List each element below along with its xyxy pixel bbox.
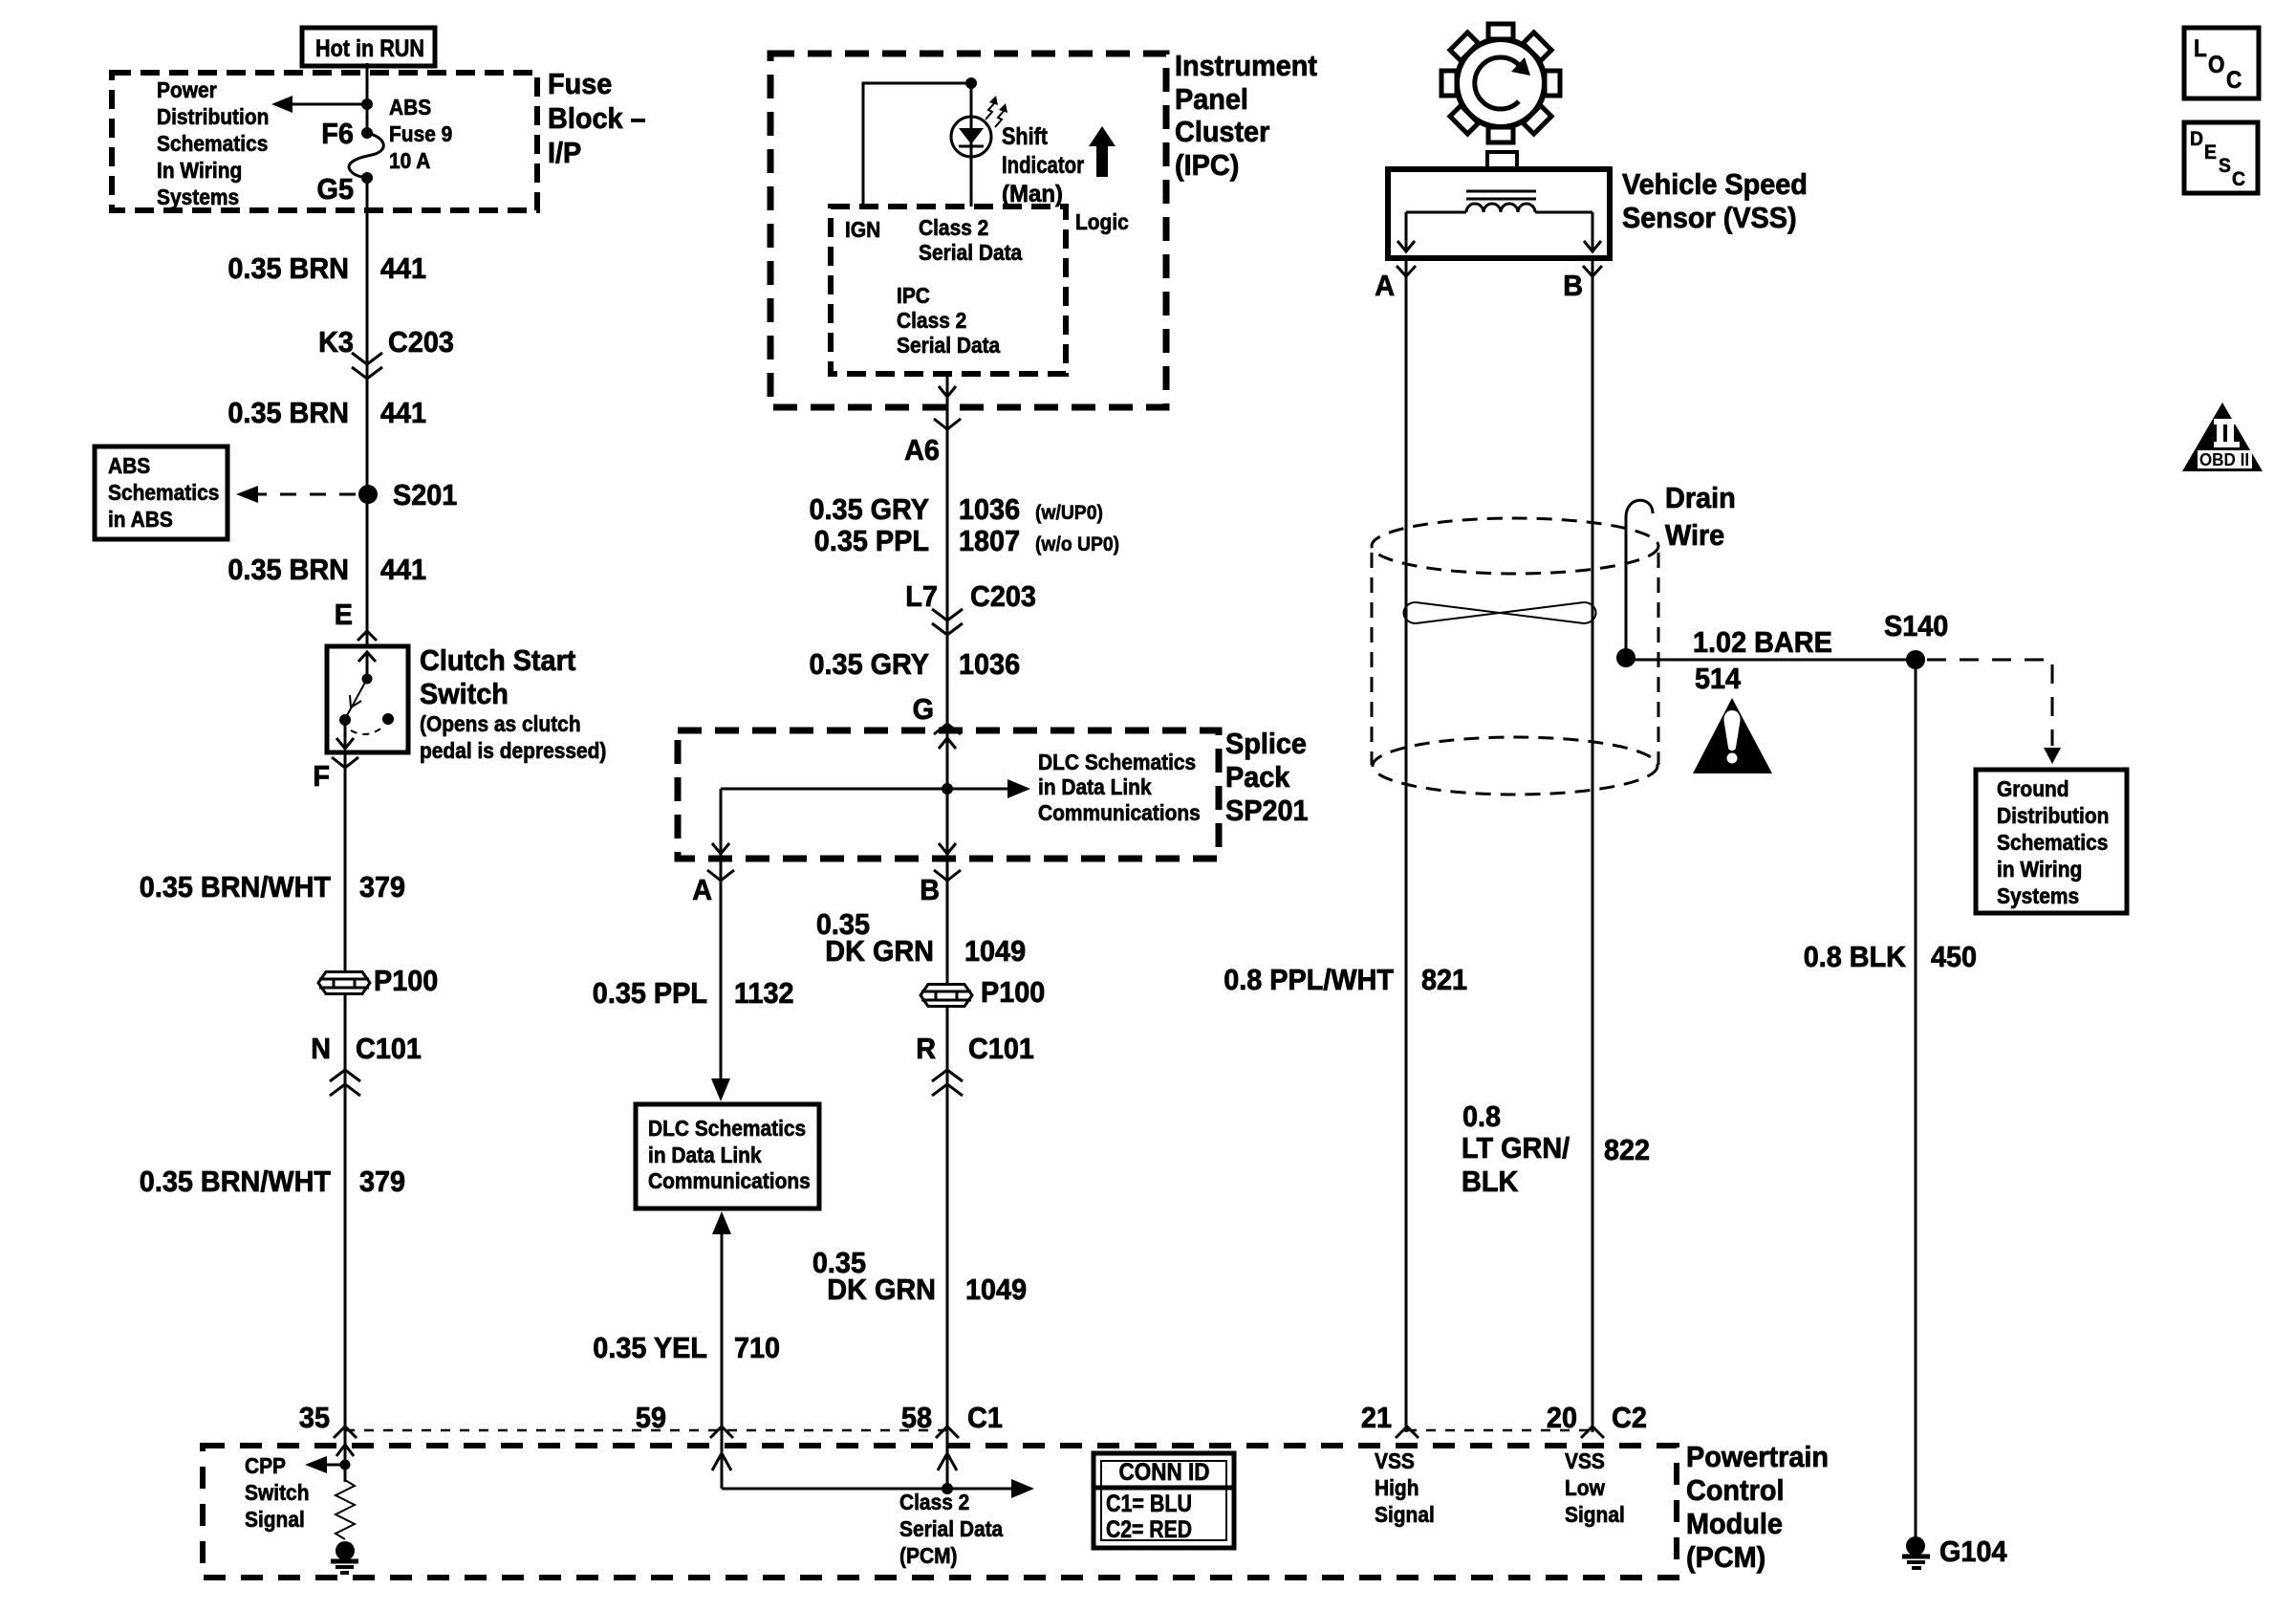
node: LED feed junction bbox=[965, 77, 977, 89]
label Class 2 Serial Data bbox=[919, 215, 1022, 265]
OBD II icon bbox=[2182, 403, 2263, 471]
svg-text:Shift: Shift bbox=[1002, 123, 1049, 150]
svg-text:B: B bbox=[920, 873, 940, 906]
label CPP Switch Signal bbox=[245, 1453, 310, 1532]
svg-text:1049: 1049 bbox=[964, 934, 1026, 968]
svg-text:379: 379 bbox=[359, 1165, 405, 1198]
label Instrument Panel Cluster (IPC) bbox=[1175, 49, 1317, 182]
svg-text:1036: 1036 bbox=[959, 492, 1020, 526]
svg-text:Serial Data: Serial Data bbox=[919, 240, 1022, 265]
wire: battery feed from Hot in RUN to fuse bbox=[366, 63, 369, 133]
svg-text:in Wiring: in Wiring bbox=[1997, 857, 2082, 882]
svg-text:G5: G5 bbox=[317, 172, 355, 206]
Hot in RUN box bbox=[302, 28, 435, 66]
label IPC Class 2 Serial Data bbox=[897, 283, 1000, 358]
svg-text:OBD II: OBD II bbox=[2199, 450, 2249, 469]
svg-text:DK GRN: DK GRN bbox=[825, 934, 934, 968]
svg-text:1049: 1049 bbox=[965, 1273, 1027, 1306]
svg-text:0.8: 0.8 bbox=[1462, 1099, 1501, 1133]
DLC Schematics box bbox=[636, 1104, 819, 1208]
label 0.35 YEL 710 bbox=[593, 1331, 780, 1364]
ground (PCM internal) bbox=[331, 1541, 358, 1573]
svg-text:Panel: Panel bbox=[1175, 82, 1248, 116]
label Drain Wire bbox=[1665, 481, 1736, 552]
svg-text:Clutch Start: Clutch Start bbox=[420, 643, 575, 677]
label 0.8 LT GRN/ BLK 822 bbox=[1462, 1099, 1650, 1198]
svg-text:(w/o UP0): (w/o UP0) bbox=[1035, 533, 1119, 555]
svg-text:822: 822 bbox=[1604, 1133, 1650, 1166]
terminal B of splice bbox=[920, 870, 961, 906]
resistor (CPP pull-up) bbox=[336, 1480, 355, 1539]
svg-text:N: N bbox=[311, 1032, 331, 1065]
label 0.35 DK GRN 1049 (2) bbox=[812, 1246, 1027, 1306]
wire YEL 710 up into DLC box bbox=[712, 1211, 731, 1446]
shield cylinder sides bbox=[1372, 553, 1658, 765]
svg-text:S: S bbox=[2219, 155, 2231, 177]
svg-text:Instrument: Instrument bbox=[1175, 49, 1317, 82]
svg-text:C: C bbox=[2226, 67, 2242, 94]
up arrow solid (shift up symbol) bbox=[1089, 126, 1116, 177]
svg-text:379: 379 bbox=[359, 870, 405, 903]
splice S201 with dashed arrow to ABS bbox=[236, 478, 457, 512]
svg-text:C101: C101 bbox=[968, 1032, 1034, 1065]
svg-text:R: R bbox=[916, 1032, 936, 1065]
wire DK GRN 1049 from B down to PCM bbox=[946, 859, 949, 1446]
PCM pin 20 C2 bbox=[1547, 1401, 1647, 1438]
PCM entry arrow at pin 58 bbox=[938, 1440, 957, 1489]
svg-text:A6: A6 bbox=[904, 433, 940, 467]
splice branch to DLC (arrow right) bbox=[721, 779, 1030, 798]
wire out of logic module with arrow bbox=[939, 374, 956, 429]
label 1.02 BARE 514 bbox=[1693, 625, 1832, 695]
svg-text:Schematics: Schematics bbox=[1997, 830, 2108, 855]
LED shift indicator lamp bbox=[951, 96, 1007, 157]
splice left branch down bbox=[712, 789, 729, 881]
VSS stem bbox=[1487, 152, 1517, 169]
svg-text:Splice: Splice bbox=[1225, 727, 1307, 760]
splice pack SP201 dashed box bbox=[678, 730, 1219, 859]
label Clutch Start Switch bbox=[420, 643, 606, 763]
svg-text:in Data Link: in Data Link bbox=[1038, 774, 1152, 799]
svg-text:0.35 BRN: 0.35 BRN bbox=[227, 396, 349, 429]
svg-text:VSS: VSS bbox=[1565, 1448, 1605, 1473]
wire IGN feed bbox=[863, 83, 971, 207]
svg-text:CONN ID: CONN ID bbox=[1119, 1459, 1210, 1486]
wire 450 BLK from S140 to G104 bbox=[1915, 660, 1917, 1539]
svg-text:Systems: Systems bbox=[157, 185, 239, 209]
wire 379 BRN/WHT from F down to PCM bbox=[344, 753, 347, 1446]
svg-text:1807: 1807 bbox=[959, 524, 1020, 557]
svg-text:Logic: Logic bbox=[1075, 209, 1129, 234]
pass-through grommet P100 (left) bbox=[318, 964, 438, 997]
svg-text:Wire: Wire bbox=[1665, 518, 1724, 552]
connector C101 pin N bbox=[311, 1032, 422, 1096]
svg-text:L7: L7 bbox=[905, 579, 938, 613]
svg-text:in Data Link: in Data Link bbox=[648, 1143, 762, 1167]
switch internals: common arrow up bbox=[358, 652, 376, 685]
switch movable contact blade bbox=[339, 679, 394, 734]
svg-text:F6: F6 bbox=[321, 117, 354, 150]
note Power Distribution Schematics In Wiring Systems bbox=[157, 77, 269, 209]
svg-text:Switch: Switch bbox=[420, 677, 509, 710]
warning triangle 514 bbox=[1693, 698, 1772, 773]
terminal A of splice bbox=[692, 870, 734, 906]
fuse name ABS Fuse 9 10 A bbox=[389, 95, 452, 173]
IPC dashed box: Instrument Panel Cluster bbox=[770, 54, 1166, 407]
svg-text:In Wiring: In Wiring bbox=[157, 158, 242, 183]
svg-text:K3: K3 bbox=[318, 325, 354, 359]
PCM entry arrow at pin 35 bbox=[336, 1440, 354, 1482]
wire LED branch bbox=[970, 83, 973, 207]
svg-text:E: E bbox=[2204, 142, 2217, 163]
svg-text:DLC Schematics: DLC Schematics bbox=[1038, 750, 1196, 774]
IPC inner dashed box: logic module bbox=[831, 207, 1066, 374]
svg-text:0.35 BRN/WHT: 0.35 BRN/WHT bbox=[140, 870, 331, 903]
svg-text:Control: Control bbox=[1686, 1473, 1785, 1507]
label 0.8 PPL/WHT 821 bbox=[1224, 963, 1467, 996]
svg-text:Power: Power bbox=[157, 77, 217, 102]
svg-text:F: F bbox=[313, 759, 330, 793]
svg-text:Class 2: Class 2 bbox=[919, 215, 988, 240]
label Splice Pack SP201 bbox=[1225, 727, 1309, 827]
connector C1 dashed line bbox=[345, 1429, 947, 1432]
svg-text:(PCM): (PCM) bbox=[1686, 1540, 1765, 1574]
label 0.35 PPL 1132 bbox=[593, 976, 794, 1010]
svg-text:C1: C1 bbox=[967, 1401, 1003, 1434]
svg-text:Signal: Signal bbox=[245, 1507, 305, 1532]
connector C203 pin L7 bbox=[905, 579, 1036, 635]
svg-text:821: 821 bbox=[1421, 963, 1467, 996]
svg-text:Schematics: Schematics bbox=[108, 480, 219, 505]
svg-text:Communications: Communications bbox=[1038, 800, 1201, 825]
fuse F9: terminals F6 and G5 with fuse curve bbox=[349, 127, 383, 184]
terminal G bbox=[913, 692, 961, 734]
svg-text:S201: S201 bbox=[393, 478, 457, 512]
drain wire with hook bbox=[1616, 500, 1653, 667]
svg-text:A: A bbox=[692, 873, 712, 906]
VSS reluctor gear bbox=[1441, 24, 1560, 142]
svg-text:Hot in RUN: Hot in RUN bbox=[315, 35, 424, 62]
svg-text:0.35 PPL: 0.35 PPL bbox=[814, 524, 929, 557]
svg-text:Schematics: Schematics bbox=[157, 131, 268, 156]
svg-text:pedal is depressed): pedal is depressed) bbox=[420, 738, 606, 763]
svg-text:Distribution: Distribution bbox=[157, 104, 269, 129]
svg-text:C203: C203 bbox=[970, 579, 1036, 613]
svg-text:Module: Module bbox=[1686, 1507, 1783, 1540]
VSS pickup core bbox=[1466, 191, 1536, 199]
svg-text:Serial Data: Serial Data bbox=[899, 1516, 1003, 1541]
svg-text:BLK: BLK bbox=[1462, 1165, 1519, 1198]
connector C203 pin K3 bbox=[318, 325, 454, 379]
label Class 2 Serial Data (PCM) bbox=[899, 1490, 1003, 1568]
svg-text:710: 710 bbox=[734, 1331, 780, 1364]
svg-text:E: E bbox=[335, 598, 353, 631]
svg-text:P100: P100 bbox=[981, 975, 1045, 1009]
svg-text:(IPC): (IPC) bbox=[1175, 148, 1239, 182]
svg-text:Pack: Pack bbox=[1225, 760, 1290, 794]
wire VSS low 822 bbox=[1592, 258, 1594, 1432]
svg-text:P100: P100 bbox=[374, 964, 438, 997]
svg-text:O: O bbox=[2208, 52, 2225, 78]
svg-text:D: D bbox=[2190, 128, 2203, 150]
svg-text:Fuse: Fuse bbox=[548, 67, 612, 100]
svg-text:G: G bbox=[913, 692, 934, 726]
svg-text:(w/UP0): (w/UP0) bbox=[1035, 502, 1103, 524]
fuse block dashed box: Fuse Block I/P bbox=[112, 73, 537, 210]
svg-text:Class 2: Class 2 bbox=[897, 308, 966, 333]
svg-text:C1= BLU: C1= BLU bbox=[1106, 1491, 1192, 1517]
LOC icon bbox=[2184, 28, 2259, 98]
svg-text:1.02 BARE: 1.02 BARE bbox=[1693, 625, 1832, 659]
svg-text:VSS: VSS bbox=[1375, 1448, 1415, 1473]
svg-text:C: C bbox=[2232, 168, 2245, 190]
svg-text:ABS: ABS bbox=[389, 95, 431, 120]
svg-text:0.35 GRY: 0.35 GRY bbox=[810, 647, 930, 681]
PCM dashed box: Powertrain Control Module bbox=[203, 1446, 1677, 1578]
svg-text:514: 514 bbox=[1695, 662, 1742, 695]
svg-text:1132: 1132 bbox=[734, 976, 794, 1010]
svg-text:35: 35 bbox=[299, 1401, 330, 1434]
splice S140 bbox=[1884, 609, 1948, 669]
svg-text:S140: S140 bbox=[1884, 609, 1948, 642]
svg-text:0.35 YEL: 0.35 YEL bbox=[593, 1331, 707, 1364]
terminal A of VSS bbox=[1375, 266, 1416, 302]
svg-text:0.35 PPL: 0.35 PPL bbox=[593, 976, 707, 1010]
terminal A6 bbox=[904, 419, 961, 467]
label 0.8 BLK 450 bbox=[1804, 940, 1977, 973]
svg-text:10 A: 10 A bbox=[389, 148, 430, 173]
svg-text:Signal: Signal bbox=[1565, 1502, 1625, 1527]
svg-text:C2= RED: C2= RED bbox=[1106, 1516, 1192, 1543]
terminal B of VSS bbox=[1563, 266, 1602, 302]
svg-text:DLC Schematics: DLC Schematics bbox=[648, 1116, 806, 1141]
label Shift Indicator (Man) bbox=[1002, 123, 1084, 207]
shield cylinder top ellipse bbox=[1372, 518, 1658, 574]
splice bus vertical wire with arrows bbox=[939, 730, 956, 859]
svg-text:Serial Data: Serial Data bbox=[897, 333, 1000, 358]
svg-text:441: 441 bbox=[380, 553, 426, 586]
svg-text:C101: C101 bbox=[356, 1032, 422, 1065]
PCM pin 59 bbox=[636, 1401, 733, 1438]
PCM pin 21 bbox=[1361, 1401, 1419, 1438]
svg-text:450: 450 bbox=[1931, 940, 1977, 973]
svg-text:in ABS: in ABS bbox=[108, 507, 173, 532]
VSS internal drops with arrows bbox=[1397, 212, 1601, 252]
svg-text:B: B bbox=[1563, 269, 1583, 302]
svg-text:Cluster: Cluster bbox=[1175, 115, 1269, 148]
label VSS High Signal bbox=[1375, 1448, 1435, 1527]
svg-text:Vehicle Speed: Vehicle Speed bbox=[1622, 167, 1808, 201]
svg-text:Block –: Block – bbox=[548, 101, 646, 135]
svg-text:DK GRN: DK GRN bbox=[827, 1273, 936, 1306]
note DLC Schematics in Data Link Communications (in splice) bbox=[1038, 750, 1201, 825]
label 0.35 GRY 1036 (w/UP0) bbox=[810, 492, 1103, 526]
DESC icon bbox=[2184, 122, 2258, 193]
svg-text:Communications: Communications bbox=[648, 1168, 811, 1193]
svg-text:I/P: I/P bbox=[548, 136, 581, 169]
svg-text:21: 21 bbox=[1361, 1401, 1392, 1434]
svg-text:IGN: IGN bbox=[845, 217, 880, 242]
svg-text:Switch: Switch bbox=[245, 1480, 310, 1505]
svg-text:Drain: Drain bbox=[1665, 481, 1736, 514]
svg-text:CPP: CPP bbox=[245, 1453, 286, 1478]
svg-text:C203: C203 bbox=[388, 325, 454, 359]
class 2 serial data bus with arrow bbox=[722, 1479, 1034, 1498]
connector C2 dashed line bbox=[1407, 1429, 1592, 1432]
pass-through grommet P100 (middle) bbox=[921, 975, 1045, 1009]
svg-text:(PCM): (PCM) bbox=[899, 1543, 958, 1568]
shield cylinder bottom ellipse bbox=[1373, 737, 1657, 795]
svg-text:SP201: SP201 bbox=[1225, 794, 1309, 827]
svg-text:LT GRN/: LT GRN/ bbox=[1462, 1131, 1570, 1165]
svg-text:0.35 BRN: 0.35 BRN bbox=[227, 553, 349, 586]
VSS box bbox=[1388, 169, 1610, 258]
VSS coil bbox=[1406, 204, 1592, 212]
wire: branch arrow to Power Distribution bbox=[271, 96, 373, 113]
svg-text:Ground: Ground bbox=[1997, 776, 2069, 801]
svg-text:High: High bbox=[1375, 1475, 1419, 1500]
label Vehicle Speed Sensor (VSS) bbox=[1622, 167, 1808, 234]
svg-text:Class 2: Class 2 bbox=[899, 1490, 969, 1514]
svg-text:A: A bbox=[1375, 269, 1395, 302]
label VSS Low Signal bbox=[1565, 1448, 1625, 1527]
svg-text:Low: Low bbox=[1565, 1475, 1605, 1500]
svg-text:0.8 BLK: 0.8 BLK bbox=[1804, 940, 1907, 973]
splice node SP201 bbox=[942, 783, 953, 795]
label 0.35 PPL 1807 (w/o UP0) bbox=[814, 524, 1119, 557]
svg-text:L: L bbox=[2194, 35, 2207, 62]
svg-text:Fuse 9: Fuse 9 bbox=[389, 121, 452, 146]
CONN ID box bbox=[1094, 1453, 1234, 1548]
svg-text:441: 441 bbox=[380, 251, 426, 285]
svg-text:(Opens as clutch: (Opens as clutch bbox=[420, 711, 581, 736]
label Powertrain Control Module (PCM) bbox=[1686, 1440, 1829, 1574]
svg-text:441: 441 bbox=[380, 396, 426, 429]
svg-text:0.35 BRN/WHT: 0.35 BRN/WHT bbox=[140, 1165, 331, 1198]
label 0.35 GRY 1036 (2) bbox=[810, 647, 1021, 681]
terminal F bbox=[313, 757, 358, 793]
svg-text:C2: C2 bbox=[1612, 1401, 1647, 1434]
PCM entry arrow at pin 59 bbox=[712, 1440, 731, 1489]
svg-text:G104: G104 bbox=[1939, 1535, 2007, 1568]
svg-text:Distribution: Distribution bbox=[1997, 803, 2109, 828]
svg-text:(Man): (Man) bbox=[1002, 181, 1063, 207]
wire PPL 1132 down to DLC box bbox=[711, 859, 730, 1101]
wire 514 BARE to S140 bbox=[1626, 659, 1916, 662]
CPP signal arrow bbox=[305, 1456, 351, 1473]
svg-text:Sensor (VSS): Sensor (VSS) bbox=[1622, 201, 1797, 234]
svg-text:Indicator: Indicator bbox=[1002, 152, 1084, 179]
svg-text:0.35 GRY: 0.35 GRY bbox=[810, 492, 930, 526]
dashed link to ground distribution bbox=[1927, 660, 2061, 764]
note box ABS Schematics in ABS bbox=[95, 446, 227, 539]
svg-text:IPC: IPC bbox=[897, 283, 930, 308]
connector C101 pin R bbox=[916, 1032, 1034, 1096]
wire VSS high 821 bbox=[1405, 258, 1408, 1432]
svg-text:ABS: ABS bbox=[108, 453, 150, 478]
twisted pair symbol bbox=[1404, 602, 1596, 623]
wire A6 down to G bbox=[946, 429, 949, 730]
svg-text:0.8 PPL/WHT: 0.8 PPL/WHT bbox=[1224, 963, 1394, 996]
PCM pin 35 bbox=[299, 1401, 357, 1438]
note box Ground Distribution Schematics in Wiring Systems bbox=[1976, 770, 2127, 913]
svg-text:Powertrain: Powertrain bbox=[1686, 1440, 1829, 1473]
switch output arrow down bbox=[336, 720, 354, 750]
svg-text:Systems: Systems bbox=[1997, 883, 2079, 908]
label 0.35 DK GRN 1049 (1) bbox=[816, 907, 1026, 968]
wire 441 BRN from G5 down to E bbox=[366, 178, 369, 646]
svg-text:1036: 1036 bbox=[959, 647, 1020, 681]
PCM pin 58 C1 bbox=[901, 1401, 1003, 1438]
terminal E bbox=[335, 598, 377, 641]
ground G104 bbox=[1902, 1535, 2007, 1568]
clutch start switch box bbox=[327, 646, 408, 752]
svg-text:0.35 BRN: 0.35 BRN bbox=[227, 251, 349, 285]
svg-text:Signal: Signal bbox=[1375, 1502, 1435, 1527]
